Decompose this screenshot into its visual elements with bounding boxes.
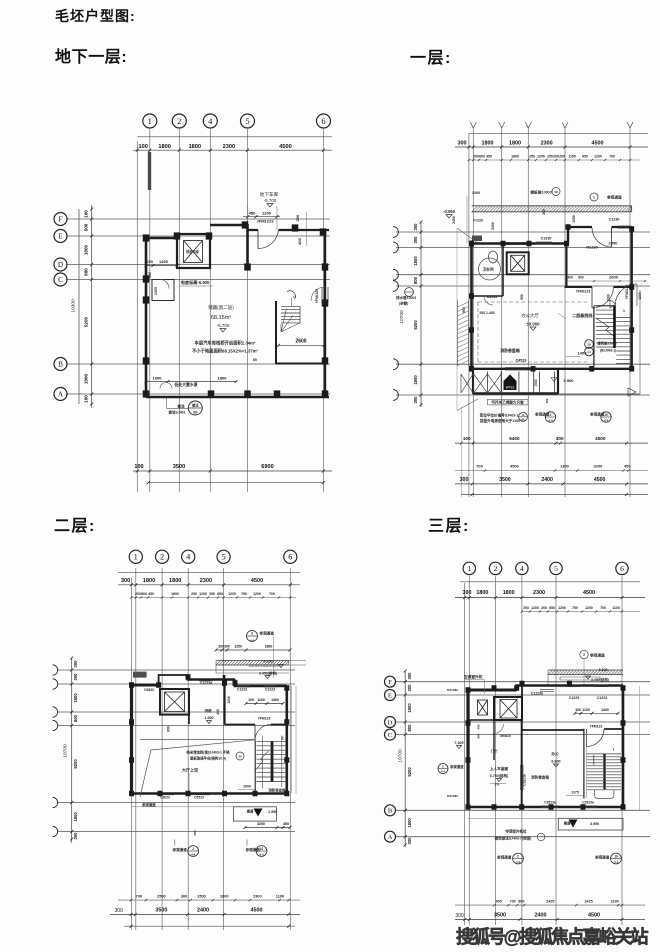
svg-text:1800: 1800	[476, 590, 488, 596]
svg-text:消防卷盘箱: 消防卷盘箱	[531, 775, 549, 780]
svg-text:1400: 1400	[601, 708, 609, 712]
svg-text:300: 300	[413, 223, 418, 231]
svg-text:4500: 4500	[588, 913, 600, 919]
svg-text:参观通道: 参观通道	[496, 855, 512, 860]
svg-text:29: 29	[238, 755, 242, 759]
svg-text:参观通道: 参观通道	[259, 631, 275, 636]
svg-text:750: 750	[572, 606, 578, 610]
svg-text:-5.700: -5.700	[217, 323, 230, 328]
svg-text:1800: 1800	[189, 144, 201, 150]
svg-text:2: 2	[517, 855, 519, 859]
svg-text:空调室外机位: 空调室外机位	[506, 829, 527, 834]
svg-text:100: 100	[84, 210, 89, 218]
svg-text:1800: 1800	[143, 578, 155, 584]
svg-text:C: C	[388, 732, 392, 739]
svg-text:1500: 1500	[197, 893, 206, 898]
svg-text:380: 380	[193, 830, 197, 835]
svg-text:450: 450	[283, 822, 289, 826]
svg-text:300: 300	[73, 673, 78, 681]
svg-text:面板玻璃平台(结构10.4): 面板玻璃平台(结构10.4)	[190, 756, 226, 761]
svg-text:办公大厅: 办公大厅	[521, 312, 539, 319]
svg-text:M1168#: M1168#	[447, 688, 458, 692]
svg-text:200300: 200300	[218, 645, 229, 649]
svg-text:300: 300	[455, 913, 464, 919]
svg-text:1000: 1000	[243, 785, 251, 789]
svg-text:办公: 办公	[550, 751, 559, 756]
svg-text:1800: 1800	[220, 893, 229, 898]
svg-text:800: 800	[479, 155, 485, 159]
svg-text:C2523a: C2523a	[582, 801, 594, 805]
svg-text:80: 80	[253, 358, 257, 362]
svg-text:1200: 1200	[262, 210, 272, 215]
svg-text:400: 400	[216, 709, 220, 715]
svg-text:-0.050: -0.050	[443, 209, 456, 214]
svg-text:10: 10	[614, 855, 618, 859]
svg-text:200: 200	[541, 606, 547, 610]
svg-text:4500: 4500	[251, 578, 263, 584]
svg-text:900: 900	[496, 899, 502, 903]
svg-text:3200: 3200	[257, 822, 265, 826]
svg-text:1200: 1200	[585, 606, 593, 610]
svg-text:1200: 1200	[531, 606, 539, 610]
svg-text:高层顶绿化屋面做法参见: 高层顶绿化屋面做法参见	[249, 664, 280, 668]
svg-text:2%: 2%	[495, 783, 500, 787]
svg-text:6: 6	[620, 564, 624, 573]
svg-text:1000: 1000	[153, 376, 163, 381]
svg-text:300: 300	[458, 141, 467, 147]
svg-text:1100: 1100	[257, 698, 265, 702]
svg-text:C1223: C1223	[597, 696, 607, 700]
svg-text:1800: 1800	[84, 373, 89, 384]
svg-text:2300: 2300	[533, 590, 545, 596]
svg-text:1: 1	[148, 116, 152, 126]
svg-text:空调室外机: 空调室外机	[464, 674, 483, 679]
svg-text:2: 2	[583, 653, 585, 657]
svg-text:4500: 4500	[592, 141, 604, 147]
svg-text:800: 800	[578, 276, 584, 280]
svg-text:2400: 2400	[535, 913, 547, 919]
svg-text:1800: 1800	[218, 376, 228, 381]
svg-text:消防卷盘箱: 消防卷盘箱	[269, 788, 287, 793]
svg-text:C1223b: C1223b	[531, 692, 543, 696]
svg-text:10300: 10300	[71, 299, 77, 313]
svg-text:6.750(结构): 6.750(结构)	[490, 773, 509, 778]
svg-text:2300: 2300	[541, 141, 553, 147]
svg-text:300: 300	[121, 578, 130, 584]
svg-text:29: 29	[587, 343, 591, 347]
svg-text:书房: 书房	[204, 708, 212, 713]
svg-text:4-4: 4-4	[441, 770, 445, 774]
svg-text:模板做2J003: 模板做2J003	[530, 190, 551, 195]
svg-text:4.100: 4.100	[598, 668, 607, 672]
svg-text:300: 300	[556, 436, 564, 441]
svg-text:纳米增加财(落)SJ403-1 不锈: 纳米增加财(落)SJ403-1 不锈	[186, 750, 230, 755]
svg-text:1800: 1800	[73, 812, 78, 822]
svg-text:D: D	[58, 261, 63, 269]
svg-text:650: 650	[217, 592, 223, 596]
svg-text:2600: 2600	[295, 339, 306, 345]
svg-text:1200: 1200	[253, 592, 261, 596]
svg-text:1800: 1800	[511, 155, 519, 159]
svg-text:2425: 2425	[584, 899, 592, 903]
svg-text:100: 100	[134, 464, 143, 470]
svg-text:不小于地面面积68.15X2%=1.37m²: 不小于地面面积68.15X2%=1.37m²	[192, 348, 259, 355]
svg-text:C1230: C1230	[609, 218, 620, 222]
svg-text:300: 300	[73, 832, 78, 840]
svg-text:100: 100	[139, 144, 148, 150]
svg-text:100: 100	[463, 436, 471, 441]
svg-text:300: 300	[181, 893, 188, 898]
svg-text:2: 2	[442, 765, 444, 769]
svg-text:3.450(结构): 3.450(结构)	[259, 670, 277, 675]
svg-text:250: 250	[209, 592, 215, 596]
svg-text:1100: 1100	[276, 893, 284, 898]
svg-text:楼通: 楼通	[247, 809, 254, 814]
svg-text:100: 100	[545, 398, 549, 403]
svg-text:门厅: 门厅	[491, 749, 498, 754]
svg-text:5200: 5200	[84, 316, 89, 327]
svg-text:450: 450	[249, 210, 256, 215]
svg-text:3.950: 3.950	[590, 822, 599, 826]
svg-text:2400: 2400	[197, 908, 209, 914]
svg-text:4500: 4500	[594, 477, 606, 483]
svg-text:1800: 1800	[73, 693, 78, 703]
svg-text:m: m	[522, 413, 525, 417]
svg-text:4-4: 4-4	[587, 350, 591, 354]
svg-text:YFM123: YFM123	[590, 725, 603, 729]
svg-text:300: 300	[407, 837, 412, 845]
svg-text:10: 10	[260, 847, 264, 851]
svg-text:3500: 3500	[155, 908, 167, 914]
svg-text:2450: 2450	[491, 222, 495, 230]
svg-text:4-4: 4-4	[259, 852, 263, 856]
svg-text:2600: 2600	[609, 275, 619, 280]
svg-text:450: 450	[148, 592, 154, 596]
svg-text:850: 850	[167, 726, 171, 732]
svg-text:1250: 1250	[234, 645, 242, 649]
svg-text:1200: 1200	[228, 592, 236, 596]
svg-text:C1223: C1223	[237, 688, 247, 692]
svg-text:1300: 1300	[560, 464, 569, 469]
svg-text:F: F	[388, 679, 392, 686]
svg-text:消防卷盘箱: 消防卷盘箱	[500, 348, 520, 353]
svg-text:300: 300	[460, 477, 469, 483]
svg-text:6: 6	[321, 116, 325, 126]
svg-text:2400: 2400	[541, 477, 553, 483]
svg-text:参观通道: 参观通道	[142, 802, 156, 807]
svg-text:参观通道: 参观通道	[594, 855, 610, 860]
svg-text:2425: 2425	[546, 899, 554, 903]
svg-text:200: 200	[473, 155, 479, 159]
svg-text:800: 800	[141, 592, 147, 596]
svg-text:2500: 2500	[157, 893, 166, 898]
svg-text:4500: 4500	[279, 144, 291, 150]
svg-text:1200: 1200	[227, 696, 231, 704]
svg-text:YFM1123: YFM1123	[576, 290, 591, 294]
svg-text:1100: 1100	[611, 899, 619, 903]
svg-text:卫生间: 卫生间	[482, 267, 493, 272]
svg-text:100: 100	[84, 395, 89, 403]
svg-text:低处大蓄水景: 低处大蓄水景	[173, 382, 197, 387]
svg-text:250: 250	[547, 155, 553, 159]
svg-text:1800: 1800	[84, 244, 89, 255]
svg-text:做法: 做法	[191, 403, 199, 408]
svg-text:本层汽车库栈桥开启面积2.34m²: 本层汽车库栈桥开启面积2.34m²	[195, 340, 256, 347]
svg-text:800: 800	[413, 276, 418, 284]
svg-text:C5523: C5523	[194, 796, 204, 800]
svg-text:3: 3	[251, 632, 253, 636]
svg-text:3500: 3500	[499, 477, 511, 483]
svg-text:4500: 4500	[583, 590, 595, 596]
svg-text:10700: 10700	[397, 749, 403, 763]
svg-text:68.15m²: 68.15m²	[211, 315, 232, 321]
svg-text:军位平拉价编号SJ403-1: 军位平拉价编号SJ403-1	[480, 413, 519, 418]
svg-text:1500: 1500	[534, 379, 538, 386]
svg-text:D: D	[388, 719, 393, 726]
svg-text:2550: 2550	[609, 241, 619, 246]
svg-text:地下车库: 地下车库	[260, 191, 279, 198]
svg-text:参观通道: 参观通道	[589, 412, 605, 417]
svg-text:150: 150	[148, 272, 152, 278]
svg-text:1.950: 1.950	[268, 810, 277, 814]
svg-text:1200: 1200	[594, 155, 602, 159]
svg-text:300: 300	[567, 276, 573, 280]
svg-text:300: 300	[73, 660, 78, 668]
svg-text:200: 200	[295, 214, 300, 221]
svg-text:250: 250	[529, 155, 535, 159]
svg-text:4-4: 4-4	[250, 639, 255, 643]
svg-text:200: 200	[553, 155, 559, 159]
svg-text:C1223: C1223	[569, 696, 579, 700]
svg-text:提型外电源使用大于1100: 提型外电源使用大于1100	[480, 418, 520, 423]
svg-text:1200: 1200	[537, 155, 545, 159]
svg-text:4500: 4500	[510, 464, 519, 469]
svg-text:储藏(第二层): 储藏(第二层)	[208, 304, 234, 311]
svg-text:M1230: M1230	[586, 245, 597, 249]
svg-text:参观通道: 参观通道	[534, 412, 550, 417]
svg-text:B: B	[58, 361, 63, 369]
svg-text:1800: 1800	[169, 578, 181, 584]
svg-text:5200: 5200	[73, 759, 78, 769]
svg-text:94: 94	[522, 418, 525, 422]
svg-text:1: 1	[623, 309, 625, 313]
svg-text:3200: 3200	[594, 464, 603, 469]
svg-text:-5.700: -5.700	[264, 198, 277, 203]
svg-text:1800: 1800	[509, 141, 521, 147]
svg-text:1400: 1400	[271, 698, 279, 702]
svg-text:4: 4	[520, 564, 524, 573]
svg-text:1: 1	[613, 748, 615, 752]
svg-text:700: 700	[476, 464, 483, 469]
svg-text:300: 300	[407, 684, 412, 692]
svg-text:大厅上空: 大厅上空	[182, 767, 198, 773]
svg-text:800: 800	[518, 899, 524, 903]
svg-text:YFTC1: YFTC1	[506, 386, 515, 390]
svg-text:950: 950	[520, 294, 524, 300]
svg-text:2: 2	[160, 553, 164, 562]
svg-text:1: 1	[467, 564, 471, 573]
svg-text:4-4: 4-4	[604, 418, 608, 422]
svg-text:500: 500	[84, 223, 89, 231]
svg-text:C2523a: C2523a	[544, 801, 556, 805]
svg-text:参观通道: 参观通道	[607, 195, 622, 200]
svg-text:400: 400	[297, 237, 302, 244]
svg-text:800: 800	[407, 724, 412, 732]
svg-text:1600: 1600	[171, 592, 179, 596]
svg-text:1800: 1800	[158, 144, 170, 150]
svg-text:600: 600	[477, 733, 481, 738]
svg-text:M1023: M1023	[487, 295, 498, 299]
svg-text:M1168#: M1168#	[447, 794, 458, 798]
svg-text:300: 300	[413, 396, 418, 404]
svg-text:300: 300	[413, 236, 418, 244]
svg-text:200 1-400: 200 1-400	[479, 311, 494, 315]
svg-text:4-4: 4-4	[516, 860, 520, 864]
svg-text:2300: 2300	[223, 144, 235, 150]
svg-text:1: 1	[134, 553, 138, 562]
svg-text:A: A	[388, 834, 393, 841]
svg-text:205: 205	[559, 155, 565, 159]
svg-text:4-4: 4-4	[614, 860, 618, 864]
svg-text:YFM123: YFM123	[258, 717, 271, 721]
svg-text:300: 300	[463, 590, 472, 596]
svg-text:JFM1223: JFM1223	[257, 219, 275, 224]
svg-text:2300: 2300	[253, 893, 262, 898]
svg-text:1000: 1000	[154, 287, 158, 295]
svg-text:C1223a: C1223a	[200, 681, 212, 685]
svg-text:750: 750	[241, 592, 247, 596]
svg-text:700: 700	[136, 893, 143, 898]
svg-text:5: 5	[222, 553, 226, 562]
svg-text:4: 4	[208, 116, 213, 126]
svg-text:100: 100	[575, 708, 581, 712]
svg-text:1800: 1800	[413, 375, 418, 385]
svg-text:可开关乙烯酸大只窗: 可开关乙烯酸大只窗	[491, 400, 524, 405]
svg-text:1200: 1200	[199, 592, 207, 596]
svg-text:参观通道: 参观通道	[172, 847, 188, 852]
svg-text:700: 700	[600, 606, 606, 610]
svg-text:参观通道: 参观通道	[450, 764, 464, 769]
svg-text:300: 300	[542, 209, 546, 215]
svg-text:4: 4	[186, 553, 190, 562]
svg-text:6: 6	[288, 553, 292, 562]
svg-text:1800: 1800	[482, 141, 494, 147]
svg-text:700: 700	[510, 899, 516, 903]
svg-text:5200: 5200	[413, 320, 418, 330]
svg-text:4.100: 4.100	[263, 660, 272, 664]
svg-text:上人平屋面: 上人平屋面	[490, 766, 509, 771]
svg-text:250: 250	[191, 592, 197, 596]
svg-text:1175: 1175	[571, 791, 579, 795]
svg-text:100: 100	[248, 698, 254, 702]
svg-text:(余额): (余额)	[399, 301, 408, 306]
svg-text:650: 650	[549, 606, 555, 610]
svg-text:1100: 1100	[582, 708, 590, 712]
svg-text:上: 上	[281, 735, 285, 740]
svg-text:C4529: C4529	[516, 359, 527, 363]
svg-text:E: E	[388, 692, 392, 699]
svg-text:300: 300	[115, 908, 124, 914]
svg-text:(B2J003-1): (B2J003-1)	[600, 349, 616, 353]
svg-text:4-4: 4-4	[548, 418, 552, 422]
svg-text:1.600: 1.600	[204, 716, 213, 720]
svg-text:10700: 10700	[63, 744, 69, 758]
svg-text:3: 3	[593, 196, 595, 200]
svg-text:700: 700	[269, 592, 275, 596]
svg-text:二层悬挑线: 二层悬挑线	[572, 312, 593, 318]
svg-text:950: 950	[582, 155, 588, 159]
svg-text:900: 900	[462, 307, 466, 313]
svg-text:300: 300	[407, 672, 412, 680]
svg-text:2: 2	[192, 847, 194, 851]
svg-text:700: 700	[609, 155, 615, 159]
svg-text:1800: 1800	[503, 590, 515, 596]
svg-text:10700: 10700	[399, 310, 405, 324]
svg-text:2800: 2800	[265, 645, 273, 649]
svg-text:450: 450	[486, 155, 492, 159]
svg-text:C: C	[58, 276, 63, 284]
svg-text:1250: 1250	[572, 215, 576, 223]
svg-text:7.400: 7.400	[454, 741, 463, 745]
svg-text:建筑做2J003: 建筑做2J003	[596, 341, 616, 346]
svg-text:2450: 2450	[452, 216, 456, 224]
svg-text:08: 08	[193, 411, 197, 415]
svg-text:1400: 1400	[159, 259, 169, 264]
svg-text:C0823: C0823	[144, 688, 154, 692]
svg-text:F: F	[59, 216, 63, 224]
svg-text:6900: 6900	[261, 464, 273, 470]
svg-text:4500: 4500	[251, 908, 263, 914]
svg-text:YFM1123: YFM1123	[315, 289, 319, 304]
svg-text:200: 200	[135, 592, 141, 596]
svg-text:1200: 1200	[558, 606, 566, 610]
svg-text:1000: 1000	[472, 191, 480, 195]
svg-text:M0815: M0815	[500, 734, 510, 738]
svg-text:1100: 1100	[612, 606, 620, 610]
svg-text:400: 400	[477, 724, 481, 729]
svg-text:5: 5	[245, 116, 249, 126]
svg-text:做法: 做法	[176, 404, 185, 409]
svg-text:2: 2	[177, 116, 181, 126]
svg-text:200: 200	[523, 606, 529, 610]
svg-text:C1330: C1330	[541, 237, 552, 241]
svg-text:建筑做法SJ403-7(效图): 建筑做法SJ403-7(效图)	[494, 836, 532, 841]
svg-text:2300: 2300	[200, 578, 212, 584]
svg-text:1800: 1800	[407, 703, 412, 713]
svg-text:5400: 5400	[509, 436, 520, 441]
svg-text:800: 800	[73, 714, 78, 722]
svg-text:800: 800	[84, 268, 89, 276]
svg-text:150: 150	[146, 259, 153, 264]
svg-text:5: 5	[554, 564, 558, 573]
svg-text:1150: 1150	[568, 155, 576, 159]
svg-text:450: 450	[624, 464, 631, 469]
svg-text:4500: 4500	[595, 436, 606, 441]
svg-text:18: 18	[554, 190, 558, 194]
svg-text:C1223: C1223	[265, 688, 275, 692]
svg-text:3500: 3500	[173, 464, 185, 470]
svg-text:2: 2	[550, 413, 552, 417]
svg-text:3500: 3500	[494, 913, 506, 919]
svg-text:预留电梯: 预留电梯	[186, 249, 200, 254]
svg-text:0.500: 0.500	[564, 378, 575, 383]
svg-text:1800: 1800	[413, 256, 418, 266]
svg-text:5200: 5200	[407, 767, 412, 777]
svg-text:A: A	[58, 391, 64, 399]
svg-text:参观通道: 参观通道	[590, 653, 605, 658]
svg-text:楼通: 楼通	[564, 821, 571, 826]
svg-text:4-4: 4-4	[191, 852, 195, 856]
